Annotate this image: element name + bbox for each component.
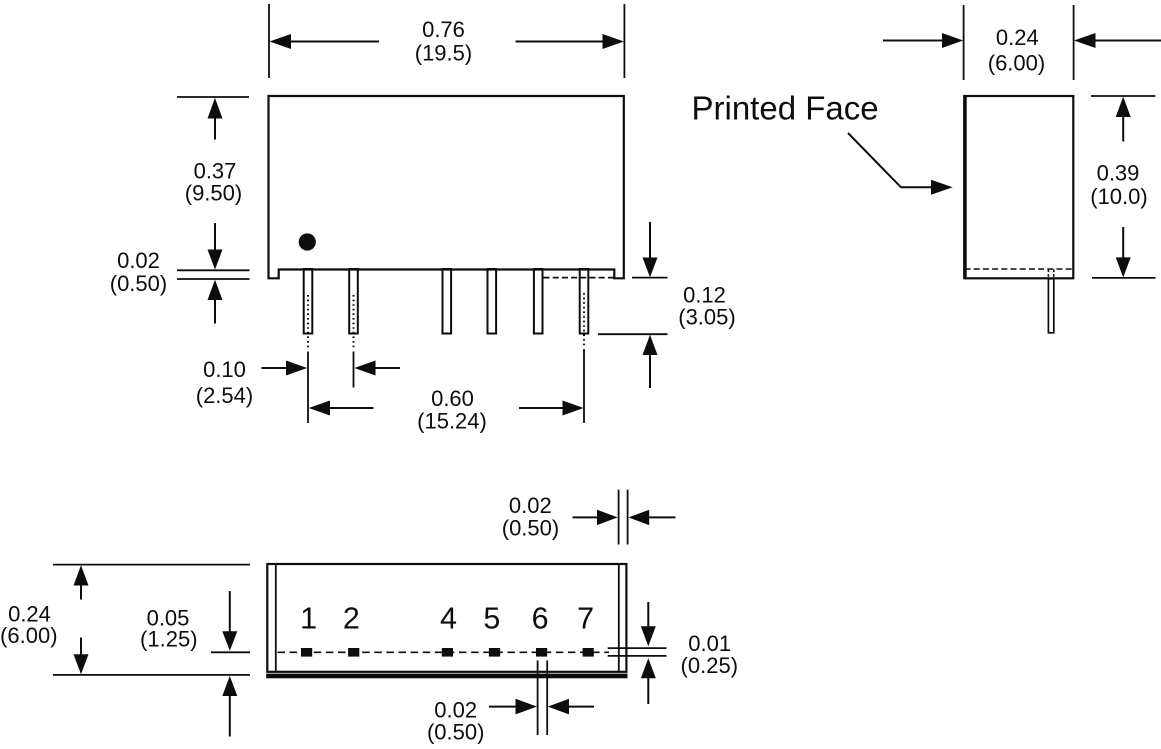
svg-text:1: 1 <box>300 602 317 636</box>
svg-text:(15.24): (15.24) <box>417 409 487 434</box>
pad 4 <box>442 648 453 657</box>
dimension 0.37 (9.50) body height <box>177 97 249 270</box>
svg-text:0.76: 0.76 <box>422 17 465 42</box>
pin 1 dotted centerline <box>307 295 309 350</box>
pad 2 <box>348 648 359 657</box>
svg-text:0.24: 0.24 <box>996 25 1039 50</box>
pin 7 lead <box>580 269 589 334</box>
svg-text:(0.50): (0.50) <box>502 516 559 541</box>
dimension 0.01 (0.25) pad thickness <box>608 602 738 704</box>
svg-text:(2.54): (2.54) <box>196 383 253 408</box>
svg-text:0.02: 0.02 <box>509 493 552 518</box>
pad 6 <box>536 648 547 657</box>
svg-text:(9.50): (9.50) <box>185 180 242 205</box>
dimension 0.12 (3.05) pin length <box>598 222 736 388</box>
svg-text:Printed Face: Printed Face <box>692 90 879 127</box>
svg-text:(6.00): (6.00) <box>0 623 57 648</box>
dimension 0.60 (15.24) pin span <box>309 386 584 434</box>
pin 7 extension line <box>583 349 585 423</box>
bottom view left inner wall line <box>275 564 277 672</box>
svg-text:(0.25): (0.25) <box>681 653 738 678</box>
side view body <box>964 96 1073 278</box>
pad 5 <box>489 648 500 657</box>
pin 1 extension line <box>307 352 309 424</box>
svg-text:(10.0): (10.0) <box>1090 184 1147 209</box>
Printed Face leader arrow <box>848 133 953 195</box>
bottom view thick base bar <box>266 674 627 679</box>
dimension 0.76 (19.5) width <box>269 4 624 78</box>
dimension 0.02 (0.50) standoff <box>110 248 250 324</box>
side view pin hidden dashed edges <box>1047 270 1049 279</box>
svg-text:7: 7 <box>577 602 594 636</box>
front view package body outline <box>269 96 624 278</box>
pin 4 lead <box>443 269 452 334</box>
svg-text:0.39: 0.39 <box>1097 160 1140 185</box>
svg-text:0.60: 0.60 <box>431 386 474 411</box>
hidden base dashed line (front view) <box>544 277 615 279</box>
svg-text:5: 5 <box>483 602 500 636</box>
pad 1 <box>301 648 312 657</box>
pin 6 lead <box>534 269 543 334</box>
svg-text:(19.5): (19.5) <box>415 41 472 66</box>
svg-text:0.02: 0.02 <box>117 248 160 273</box>
side view pin lead <box>1048 279 1053 333</box>
side view hidden base dashed line <box>965 268 1074 270</box>
pin 2 lead <box>349 269 358 334</box>
pin 5 lead <box>488 269 497 334</box>
svg-text:(3.05): (3.05) <box>678 304 735 329</box>
pin 1 marker dot <box>299 233 316 250</box>
svg-text:2: 2 <box>343 602 360 636</box>
pin 2 dotted centerline <box>353 295 355 350</box>
svg-text:(6.00): (6.00) <box>988 51 1045 76</box>
dimension 0.02 (0.50) pad width <box>427 661 594 745</box>
svg-text:6: 6 <box>532 602 549 636</box>
dimension 0.24 (6.00) depth <box>883 5 1161 80</box>
svg-text:0.10: 0.10 <box>203 357 246 382</box>
dimension 0.02 (0.50) right wall thickness <box>502 490 676 545</box>
dimension 0.39 (10.0) height <box>1090 96 1155 278</box>
svg-text:(0.50): (0.50) <box>427 720 484 745</box>
svg-text:(1.25): (1.25) <box>140 626 197 651</box>
svg-text:4: 4 <box>440 602 457 636</box>
dimension 0.24 (6.00) bottom view width <box>0 565 250 675</box>
pin 1 lead <box>304 269 313 334</box>
pin 7 dotted centerline <box>583 293 585 347</box>
side view printed face thick edge <box>963 96 966 278</box>
bottom view right inner wall line <box>618 564 620 672</box>
dimension 0.10 (2.54) pin pitch <box>196 357 400 408</box>
bottom view dashed centerline <box>278 651 610 653</box>
bottom view body outline <box>267 564 626 672</box>
pad 7 <box>583 648 594 657</box>
pin 2 extension line <box>353 352 355 388</box>
svg-text:(0.50): (0.50) <box>110 271 167 296</box>
dimension 0.05 (1.25) centerline offset <box>140 591 250 737</box>
